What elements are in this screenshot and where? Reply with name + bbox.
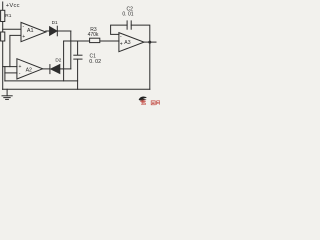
resistor R3 xyxy=(90,38,100,42)
wire feedback bottom horizontal xyxy=(5,80,78,82)
wire Vcc lead xyxy=(2,2,4,10)
svg-text:+: + xyxy=(22,34,25,40)
svg-text:+Vcc: +Vcc xyxy=(6,3,20,9)
svg-text:D2: D2 xyxy=(55,58,61,63)
capacitor C1 plates xyxy=(74,54,82,56)
wire A1 output to D1 xyxy=(46,30,50,32)
op-amp A3 xyxy=(119,33,144,52)
wire integrator input horizontal xyxy=(64,40,119,42)
svg-text:A3: A3 xyxy=(124,40,130,46)
diode D1 xyxy=(50,27,57,35)
diode D2 cathode bar xyxy=(49,65,51,74)
watermark red text right xyxy=(151,101,160,105)
wire A2 output to D2 xyxy=(43,68,50,70)
resistor R2 xyxy=(1,32,5,41)
wire C2 right to output node xyxy=(131,25,150,89)
wire node down vertical xyxy=(63,41,65,81)
wire A2 inverting input xyxy=(5,72,17,74)
wire R2 bottom down left rail xyxy=(3,41,17,67)
resistor R1 xyxy=(1,10,5,21)
wire D1 cathode to junction xyxy=(57,30,71,32)
svg-text:-: - xyxy=(120,34,122,40)
wire R3 to A3 noninverting input xyxy=(100,40,119,42)
svg-text:0. 01: 0. 01 xyxy=(122,11,133,17)
svg-text:+: + xyxy=(19,64,22,70)
svg-text:+: + xyxy=(120,41,123,47)
op-amp A2 xyxy=(17,59,43,79)
watermark red seal left xyxy=(140,100,146,105)
op-amp A1 xyxy=(21,22,46,41)
diode D2 xyxy=(51,65,60,74)
capacitor C1 bottom lead xyxy=(77,59,79,89)
ground rail xyxy=(3,88,150,90)
svg-text:470k: 470k xyxy=(88,32,99,38)
svg-text:-: - xyxy=(19,70,21,76)
svg-text:R1: R1 xyxy=(5,13,11,19)
wire tap1 to A1 inverting input xyxy=(3,28,21,30)
capacitor C2 plates xyxy=(126,21,128,29)
svg-text:-: - xyxy=(23,24,25,30)
svg-text:A2: A2 xyxy=(26,67,32,73)
wire D2 anode to junction xyxy=(60,68,71,70)
capacitor C1 top lead xyxy=(77,41,79,55)
wire left rail to ground rail xyxy=(2,67,4,90)
diode D1 cathode bar xyxy=(56,26,58,36)
watermark bird logo xyxy=(139,97,147,101)
svg-text:0. 02: 0. 02 xyxy=(89,59,101,65)
wire A1 noninverting vertical link xyxy=(10,35,21,66)
wire A2 inverting stub xyxy=(4,67,6,81)
wire R1 bottom to tap1 xyxy=(2,22,4,33)
wire A3 output xyxy=(144,41,156,43)
wire A3 inverting input xyxy=(111,25,128,34)
ground symbol xyxy=(6,89,8,96)
node output junction dot xyxy=(148,41,151,44)
svg-text:A1: A1 xyxy=(27,28,34,34)
wire diode link vertical xyxy=(70,31,72,69)
svg-text:D1: D1 xyxy=(52,20,58,25)
